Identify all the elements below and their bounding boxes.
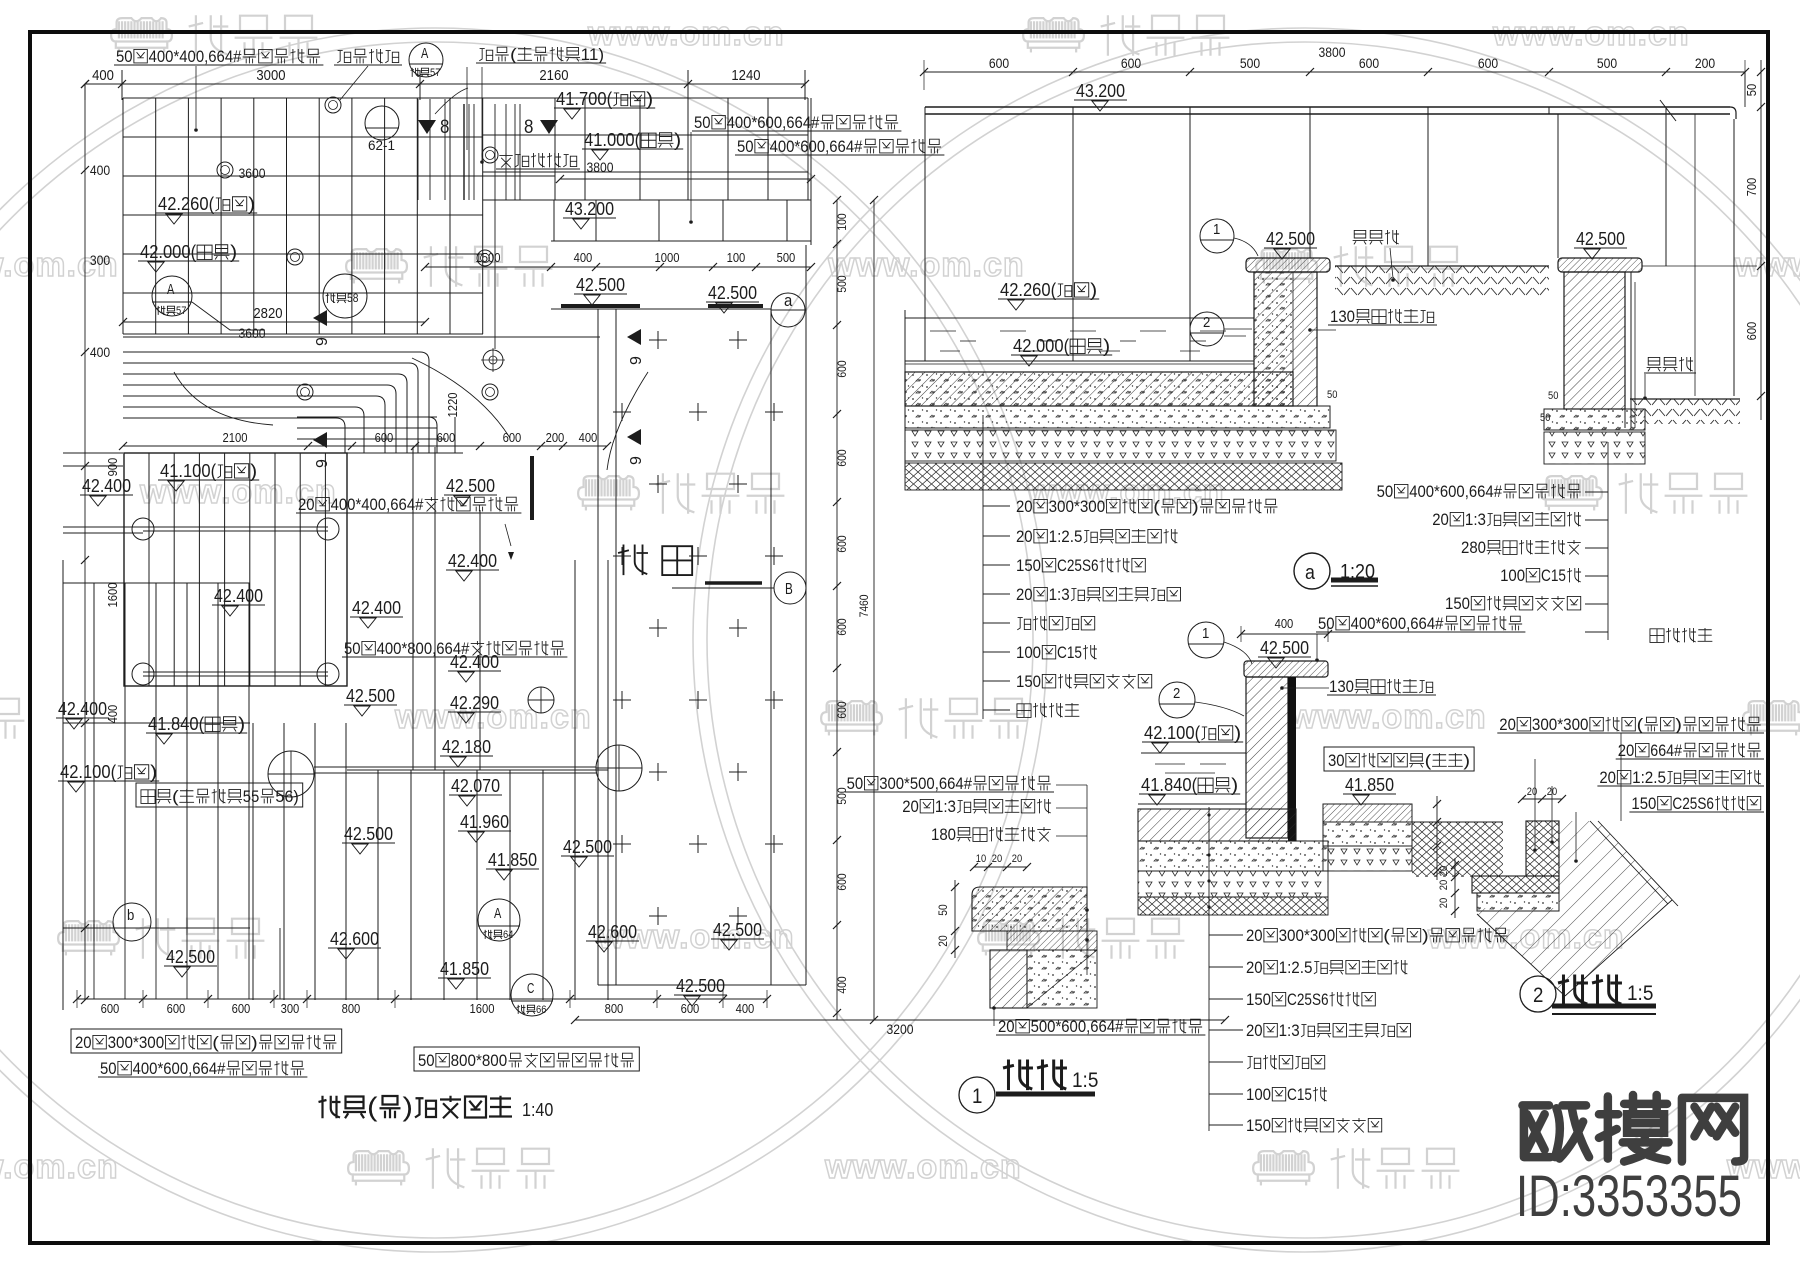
detail pool: small vdim xyxy=(1433,796,1441,880)
label 41.000 池底 xyxy=(582,130,683,160)
svg-text:500: 500 xyxy=(777,251,796,265)
d1 slab xyxy=(972,887,1087,931)
plan bottom dim 3200 xyxy=(571,1016,1229,1024)
svg-text:50: 50 xyxy=(344,639,361,658)
svg-text:www.om.cn: www.om.cn xyxy=(824,1148,1022,1186)
svg-text:30: 30 xyxy=(1328,751,1345,770)
plan: dim 2820 line xyxy=(119,318,429,326)
svg-text:600: 600 xyxy=(375,431,394,445)
sec dim 600 xyxy=(1359,56,1380,71)
svg-text:20: 20 xyxy=(992,853,1002,865)
svg-text:600: 600 xyxy=(836,618,849,636)
detail circ2 text xyxy=(1173,686,1180,702)
svg-text:150: 150 xyxy=(1016,556,1041,575)
plan: section cut B mark xyxy=(672,572,806,604)
plan: green area plus marks xyxy=(613,331,783,925)
svg-text:2160: 2160 xyxy=(539,68,568,84)
section a: right callout leader xyxy=(1585,442,1608,640)
svg-text:42.260(: 42.260( xyxy=(1000,280,1056,300)
label 42.500 c xyxy=(344,686,397,716)
svg-text:20: 20 xyxy=(937,935,950,947)
detail pool: right soil crosshatch xyxy=(1412,822,1503,877)
svg-text:1:40: 1:40 xyxy=(522,1100,553,1120)
plan: right extra dim 7460 xyxy=(870,196,878,1024)
plan 42.500 left xyxy=(574,275,627,305)
svg-text:57: 57 xyxy=(430,67,440,79)
section a: scale label a 1:20 xyxy=(1294,553,1330,589)
plan: dim 3800 top xyxy=(556,175,815,183)
section a: left pier cap xyxy=(1246,258,1330,272)
label 42.500 f xyxy=(711,920,764,950)
svg-text:3200: 3200 xyxy=(887,1022,914,1037)
plan left dim 300 xyxy=(90,253,111,268)
leader 涌泉喷头 xyxy=(340,66,368,100)
sec a callout L7 xyxy=(1017,703,1079,717)
svg-text:500*600,664#: 500*600,664# xyxy=(1031,1017,1124,1036)
sec a callout L3 xyxy=(1016,585,1181,604)
svg-text:20: 20 xyxy=(1246,926,1263,945)
deck dim 1000 xyxy=(655,251,680,265)
svg-text:42.260(: 42.260( xyxy=(158,194,214,214)
svg-text:9: 9 xyxy=(314,337,331,346)
plan: crosshair nozzle xyxy=(481,348,505,372)
label 41.100 水面 xyxy=(158,461,259,491)
d2 slab xyxy=(1472,876,1559,893)
plan: upper waterfall block xyxy=(483,98,808,200)
detail pool: wall xyxy=(1246,677,1288,838)
svg-text:400*400,664#: 400*400,664# xyxy=(149,47,242,66)
d1 left vdim xyxy=(951,880,959,958)
plan: 43.200 deck band xyxy=(551,200,811,241)
svg-text:42.400: 42.400 xyxy=(58,699,107,719)
svg-text:42.400: 42.400 xyxy=(82,476,131,496)
detail pool: floor slab xyxy=(1138,809,1296,841)
sec a callout R0 xyxy=(1377,482,1581,501)
svg-text:2820: 2820 xyxy=(253,306,282,322)
svg-text:42.600: 42.600 xyxy=(330,929,379,949)
svg-text:41.850: 41.850 xyxy=(440,959,489,979)
label 42.500 step xyxy=(444,476,497,506)
svg-text:42.500: 42.500 xyxy=(1260,638,1309,658)
dim 50 left pier xyxy=(1327,389,1337,401)
svg-text:200: 200 xyxy=(546,431,565,445)
svg-text:600: 600 xyxy=(232,1002,251,1016)
svg-text:20: 20 xyxy=(1016,527,1033,546)
detail pool: circle 1 xyxy=(1188,622,1252,664)
svg-text:1600: 1600 xyxy=(106,583,120,608)
svg-text:a: a xyxy=(784,291,793,310)
label 41.850 b xyxy=(438,959,491,989)
svg-text:41.850: 41.850 xyxy=(488,850,537,870)
label 涌泉喷头 xyxy=(334,49,402,65)
label 42.400 extra xyxy=(448,652,501,682)
svg-text:300: 300 xyxy=(90,253,111,268)
detail callout circle 2 mid xyxy=(1190,312,1252,346)
d1 circle num xyxy=(972,1085,982,1108)
svg-text:): ) xyxy=(1192,497,1199,516)
svg-text:): ) xyxy=(1422,926,1429,945)
svg-text:): ) xyxy=(674,130,681,150)
label 41.850 a xyxy=(486,850,539,880)
svg-text:): ) xyxy=(150,762,157,782)
detail pool: circle 2 xyxy=(1159,682,1244,718)
svg-text:300*300: 300*300 xyxy=(1049,497,1106,516)
leader 130宽 detail xyxy=(1284,687,1329,689)
svg-text:50: 50 xyxy=(1745,84,1759,97)
A 64 sub xyxy=(484,929,514,941)
svg-text:1:3: 1:3 xyxy=(1049,585,1070,604)
plan: lower-left stripe field xyxy=(63,560,280,1010)
plan: top dimension line xyxy=(81,70,809,100)
svg-text:20: 20 xyxy=(1016,497,1033,516)
marker circle C 环施66 xyxy=(511,974,553,1016)
svg-text:600: 600 xyxy=(1478,56,1499,71)
sec a callout L0 xyxy=(1016,497,1277,516)
svg-text:www.om.cn: www.om.cn xyxy=(827,246,1025,284)
section a: right terrace walls xyxy=(1642,114,1757,396)
plan: lower mid stripes xyxy=(253,723,608,1000)
sec a circle text xyxy=(1305,562,1316,584)
svg-text:C15: C15 xyxy=(1057,643,1082,662)
detail pool callout 1 xyxy=(1246,958,1408,977)
plan bottom dim 600 xyxy=(101,1002,120,1016)
svg-text:600: 600 xyxy=(101,1002,120,1016)
section a: right pier cap xyxy=(1558,258,1642,272)
plan bottom dim line xyxy=(73,990,771,1008)
plan bottom dim 800 xyxy=(605,1002,624,1016)
svg-text:400*600,664#: 400*600,664# xyxy=(727,113,820,132)
svg-text:1000: 1000 xyxy=(655,251,680,265)
svg-text:20: 20 xyxy=(1246,1021,1263,1040)
detail pool: dim 400 xyxy=(1237,626,1332,642)
C 66 sub xyxy=(517,1004,547,1016)
plan bottom dim 600 xyxy=(681,1002,700,1016)
svg-text:1: 1 xyxy=(1202,626,1209,642)
plan bottom dim 600 xyxy=(167,1002,186,1016)
tri8 text right xyxy=(524,117,533,138)
d2 dim 20a xyxy=(1527,786,1537,798)
svg-text:41.000(: 41.000( xyxy=(584,130,640,150)
svg-text:42.070: 42.070 xyxy=(451,776,500,796)
svg-text:20: 20 xyxy=(1547,786,1557,798)
section a: pool left edge xyxy=(904,310,906,472)
label 50厚400*800 xyxy=(342,639,567,658)
label 42.500 cap2 xyxy=(1574,229,1627,259)
section a: left pier wall xyxy=(1254,272,1317,406)
svg-text:3600: 3600 xyxy=(239,326,266,341)
svg-text:3600: 3600 xyxy=(239,166,266,181)
svg-text:2: 2 xyxy=(1203,315,1210,331)
svg-text:9: 9 xyxy=(314,459,331,468)
svg-text:800*800: 800*800 xyxy=(451,1051,508,1070)
svg-text:600: 600 xyxy=(503,431,522,445)
svg-text:66: 66 xyxy=(536,1004,546,1016)
svg-text:300*300: 300*300 xyxy=(1532,715,1589,734)
green area text 绿地 xyxy=(618,545,692,576)
svg-text:20: 20 xyxy=(1618,741,1635,760)
label 42.600 a xyxy=(328,929,381,959)
d1 bottom leader xyxy=(993,1008,995,1026)
plan: section cut a marks xyxy=(551,293,805,327)
plan top dim 1240 xyxy=(731,68,760,84)
svg-text:20: 20 xyxy=(1246,958,1263,977)
svg-text:42.500: 42.500 xyxy=(346,686,395,706)
detail pool: wave layer xyxy=(1138,897,1328,915)
svg-text:20: 20 xyxy=(1438,898,1450,908)
plan top dim 2160 xyxy=(539,68,568,84)
detail pool: callouts xyxy=(1207,807,1243,1131)
leader 跌泉 lines xyxy=(435,67,484,164)
spray nozzle circles xyxy=(217,97,498,400)
label 41.700 水面 xyxy=(554,89,655,119)
label 42.500 e xyxy=(561,837,614,867)
svg-text:20: 20 xyxy=(1012,853,1022,865)
section a: pool water xyxy=(905,318,1254,351)
svg-text:180: 180 xyxy=(931,825,956,844)
svg-text:400: 400 xyxy=(836,976,849,994)
detail pool: sand layer xyxy=(1138,871,1328,897)
svg-text:900: 900 xyxy=(106,458,120,477)
svg-text:20: 20 xyxy=(1438,866,1450,876)
sec a callout R1 xyxy=(1432,510,1581,529)
svg-text:50: 50 xyxy=(100,1059,117,1078)
detail pool: water xyxy=(1141,753,1246,773)
svg-text:130: 130 xyxy=(1330,307,1355,326)
svg-text:A: A xyxy=(494,906,501,922)
sec a callout L1 xyxy=(1016,527,1178,546)
svg-text:9: 9 xyxy=(628,356,645,365)
plan: rotated dim 1220 xyxy=(446,393,460,418)
d1 title text xyxy=(1003,1060,1067,1091)
d2 label 3 xyxy=(1629,794,1764,813)
svg-text:280: 280 xyxy=(1461,538,1486,557)
marker circle A 环施57 mid xyxy=(152,276,265,330)
dim mid 2100 xyxy=(223,431,248,445)
svg-text:700: 700 xyxy=(1745,178,1759,197)
label 42.000 池底 xyxy=(138,242,239,272)
detail pool: waterproof thick bar xyxy=(1288,677,1296,841)
svg-text:600: 600 xyxy=(836,360,849,378)
svg-text:43.200: 43.200 xyxy=(565,199,614,219)
detail pool callout 4 xyxy=(1247,1055,1324,1069)
svg-text:100: 100 xyxy=(836,213,849,231)
d2 soil hatch xyxy=(1477,821,1672,996)
label granite 400x600 a xyxy=(692,113,901,132)
label 42.500 cap1 xyxy=(1264,229,1317,259)
section a: left callout leader xyxy=(983,415,1010,719)
dim 50 right pier b xyxy=(1540,412,1550,424)
plan: big crosshair circles xyxy=(268,745,642,797)
svg-text:): ) xyxy=(250,461,257,481)
svg-text:42.500: 42.500 xyxy=(563,837,612,857)
label 42.260 水面 xyxy=(156,194,257,224)
label 旋转式喷头 xyxy=(496,153,580,169)
plan: thick section bar mid xyxy=(530,456,534,520)
svg-text:42.500: 42.500 xyxy=(1266,229,1315,249)
svg-text:42.500: 42.500 xyxy=(166,947,215,967)
C 66 text xyxy=(527,981,535,997)
detail pool: right paving xyxy=(1323,804,1412,822)
svg-text:600: 600 xyxy=(437,431,456,445)
svg-text:a: a xyxy=(1305,562,1316,584)
svg-text:): ) xyxy=(646,89,653,109)
sec dim 500 xyxy=(1597,56,1618,71)
plan: bridge post circles xyxy=(132,518,339,685)
dim mid 200 xyxy=(546,431,565,445)
svg-text:20: 20 xyxy=(1432,510,1449,529)
svg-text:9: 9 xyxy=(628,456,645,465)
svg-text:1:2.5: 1:2.5 xyxy=(1049,527,1083,546)
svg-text:A: A xyxy=(167,282,174,298)
svg-text:42.000(: 42.000( xyxy=(140,242,196,262)
svg-text:600: 600 xyxy=(836,701,849,719)
label 42.000 sec xyxy=(1011,336,1112,366)
dim mid 600 xyxy=(375,431,394,445)
plan 42.500 right xyxy=(706,283,759,313)
plan top dim 3000 xyxy=(256,68,285,84)
label 42.500 g xyxy=(164,947,217,977)
svg-text:1:3: 1:3 xyxy=(1465,510,1486,529)
sec dim 600 xyxy=(1121,56,1142,71)
marker circle A 环施64 xyxy=(478,899,520,941)
sec a callout L4 xyxy=(1017,616,1094,630)
section a: right pier wall xyxy=(1564,272,1625,409)
svg-text:50: 50 xyxy=(116,47,133,66)
d2 circle num xyxy=(1533,984,1543,1007)
svg-text:600: 600 xyxy=(836,535,849,553)
svg-text:400*400,664#: 400*400,664# xyxy=(331,495,424,514)
d1 label bottom text xyxy=(996,1017,1205,1036)
svg-text:600: 600 xyxy=(681,1002,700,1016)
svg-text:): ) xyxy=(230,242,237,262)
svg-text:42.500: 42.500 xyxy=(676,976,725,996)
d1 dim 20b xyxy=(1012,853,1022,865)
svg-text:42.500: 42.500 xyxy=(576,275,625,295)
detail 41.840 池底 xyxy=(1139,775,1240,805)
deck dim 500 xyxy=(777,251,796,265)
detail pool callout 3 xyxy=(1246,1021,1411,1040)
plan bottom dim 400 xyxy=(736,1002,755,1016)
detail circ1 text xyxy=(1202,626,1209,642)
label 130宽粘土砖垛 sec xyxy=(1328,307,1437,326)
dim 50 right pier a xyxy=(1548,390,1558,402)
dim 3200 xyxy=(887,1022,914,1037)
label 3600 dim xyxy=(239,166,266,181)
d2 concrete band xyxy=(1477,893,1559,911)
svg-text:): ) xyxy=(1090,280,1097,300)
svg-text:20: 20 xyxy=(1499,715,1516,734)
d2 label 2 xyxy=(1597,768,1764,787)
filled triangles 9 xyxy=(313,310,645,468)
svg-text:1:5: 1:5 xyxy=(1627,982,1653,1005)
marker circle A 环施57 top xyxy=(409,43,443,77)
d1 dim 10 xyxy=(976,853,986,865)
section a: right pier footing concrete xyxy=(1544,409,1645,430)
svg-text:50: 50 xyxy=(694,113,711,132)
svg-text:(: ( xyxy=(212,1033,219,1052)
svg-text:10: 10 xyxy=(976,853,986,865)
svg-text:42.000(: 42.000( xyxy=(1013,336,1069,356)
label 42.180 xyxy=(440,737,493,767)
svg-text:100: 100 xyxy=(1016,643,1041,662)
svg-text:B: B xyxy=(785,581,793,598)
svg-text:): ) xyxy=(1463,751,1470,770)
svg-text:150: 150 xyxy=(1631,794,1656,813)
sec a callout L2 xyxy=(1016,556,1145,575)
svg-text:42.500: 42.500 xyxy=(713,920,762,940)
plan left dim 400 xyxy=(90,163,111,178)
svg-text:8: 8 xyxy=(440,117,449,138)
svg-text:(: ( xyxy=(1637,715,1644,734)
d1 label 1 xyxy=(845,774,1054,793)
svg-text:600: 600 xyxy=(989,56,1010,71)
svg-text:42.500: 42.500 xyxy=(1576,229,1625,249)
svg-text:42.400: 42.400 xyxy=(448,551,497,571)
section a: paving band xyxy=(925,100,1736,121)
d1 title scale xyxy=(1072,1069,1098,1092)
svg-text:400: 400 xyxy=(90,345,111,360)
plan: left margin hlines xyxy=(63,452,123,454)
section B circle text xyxy=(785,581,793,598)
svg-text:600: 600 xyxy=(1745,322,1759,341)
svg-text:50: 50 xyxy=(1548,390,1558,402)
d2 leaders xyxy=(1533,733,1621,863)
svg-text:41.840(: 41.840( xyxy=(1141,775,1197,795)
detail 41.850 xyxy=(1343,775,1396,805)
svg-text:400*600,664#: 400*600,664# xyxy=(133,1059,226,1078)
d1 label 3 xyxy=(931,825,1051,844)
leader 火烧面 xyxy=(505,524,511,546)
marker circle 环施58 xyxy=(323,274,367,318)
section a: concrete base layer xyxy=(905,406,1330,428)
leader pool cap label xyxy=(1316,634,1318,658)
detail pool callout 6 xyxy=(1246,1116,1382,1135)
svg-text:42.400: 42.400 xyxy=(352,598,401,618)
d1 mortar band xyxy=(1007,931,1097,950)
label 41.960 xyxy=(458,812,511,842)
label 种植土 right xyxy=(1644,357,1696,373)
label 42.400 left xyxy=(80,476,133,506)
sec a callout L5 xyxy=(1016,643,1097,662)
detail 130宽粘土砖垛 xyxy=(1327,677,1436,696)
svg-text:42.100(: 42.100( xyxy=(1144,723,1200,743)
svg-text:800: 800 xyxy=(342,1002,361,1016)
sec a callout R4 xyxy=(1445,594,1581,613)
svg-text:500: 500 xyxy=(836,275,849,293)
svg-text:(: ( xyxy=(367,1092,378,1122)
svg-text:300*500,664#: 300*500,664# xyxy=(879,774,972,793)
svg-text:1:2.5: 1:2.5 xyxy=(1279,958,1313,977)
svg-text:20: 20 xyxy=(998,1017,1015,1036)
dim mid 600 xyxy=(437,431,456,445)
detail 30厚广场铺装 xyxy=(1324,747,1474,771)
svg-text:1: 1 xyxy=(1213,222,1220,238)
pool detail cap label xyxy=(1316,614,1525,633)
svg-text:42.180: 42.180 xyxy=(442,737,491,757)
svg-text:(: ( xyxy=(1425,751,1432,770)
svg-text:41.700(: 41.700( xyxy=(556,89,612,109)
detail pool callout 0 xyxy=(1246,926,1507,945)
svg-text:800: 800 xyxy=(605,1002,624,1016)
svg-text:300*300: 300*300 xyxy=(108,1033,165,1052)
label 42.400 pool xyxy=(212,586,265,616)
svg-text:C15: C15 xyxy=(1287,1085,1312,1104)
svg-text:50: 50 xyxy=(847,774,864,793)
label 43.200 plan xyxy=(563,199,616,229)
d2 wall leg xyxy=(1526,821,1559,876)
svg-text:): ) xyxy=(1231,775,1238,795)
svg-text:400: 400 xyxy=(90,163,111,178)
